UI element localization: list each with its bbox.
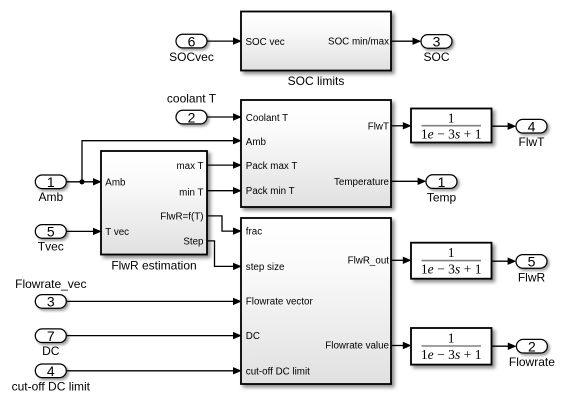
outport 1 Temp bbox=[426, 174, 457, 205]
svg-text:Amb: Amb bbox=[246, 137, 267, 148]
wire SOCvec to SOC limits bbox=[207, 37, 242, 44]
svg-text:FlwR estimation: FlwR estimation bbox=[111, 259, 196, 273]
svg-text:FlwT: FlwT bbox=[519, 135, 546, 149]
svg-text:Flowrate_vec: Flowrate_vec bbox=[15, 277, 86, 291]
inport 1 Amb bbox=[35, 174, 66, 204]
outport 2 Flowrate bbox=[509, 338, 555, 368]
inport 4 cut-off DC limit bbox=[12, 363, 91, 394]
svg-text:SOC limits: SOC limits bbox=[288, 74, 345, 88]
wire transfer fn 1 to FlwT outport bbox=[492, 123, 516, 130]
svg-text:SOC: SOC bbox=[423, 50, 449, 64]
svg-text:DC: DC bbox=[42, 344, 60, 358]
wire Temperature to Temp outport bbox=[392, 178, 427, 185]
svg-text:Temperature: Temperature bbox=[334, 177, 390, 188]
wire SOC limits to SOC bbox=[392, 38, 422, 45]
svg-text:Pack max T: Pack max T bbox=[246, 161, 298, 172]
svg-text:frac: frac bbox=[246, 227, 262, 238]
junction on Amb wire bbox=[79, 179, 84, 184]
inport 6 SOCvec bbox=[169, 33, 214, 64]
outport 4 FlwT bbox=[516, 118, 547, 148]
svg-text:Temp: Temp bbox=[427, 191, 457, 205]
inport 5 Tvec bbox=[35, 224, 66, 254]
svg-text:2: 2 bbox=[188, 109, 196, 125]
svg-text:Coolant T: Coolant T bbox=[246, 113, 288, 124]
svg-text:2: 2 bbox=[528, 338, 536, 354]
transfer function block 1/(1e-3s+1) for Flowrate bbox=[411, 328, 492, 365]
wire Step to step size bbox=[208, 241, 242, 270]
inport 7 DC bbox=[35, 328, 66, 358]
svg-text:5: 5 bbox=[47, 224, 55, 240]
svg-text:1: 1 bbox=[448, 245, 455, 260]
wire min T to Pack min T bbox=[208, 187, 242, 194]
subsystem FlwR estimation bbox=[101, 151, 207, 273]
inport 3 Flowrate_vec bbox=[15, 277, 86, 309]
svg-text:3: 3 bbox=[47, 294, 55, 310]
svg-text:Tvec: Tvec bbox=[38, 239, 64, 253]
svg-text:Amb: Amb bbox=[105, 178, 126, 189]
svg-text:FlwT: FlwT bbox=[368, 121, 389, 132]
svg-text:1e − 3s + 1: 1e − 3s + 1 bbox=[421, 347, 482, 362]
svg-text:4: 4 bbox=[528, 118, 536, 134]
svg-text:DC: DC bbox=[246, 331, 260, 342]
outport 3 SOC bbox=[421, 34, 452, 64]
wire Amb inport to FlwR estimation bbox=[67, 178, 102, 185]
svg-text:1: 1 bbox=[448, 331, 455, 346]
svg-text:Flowrate value: Flowrate value bbox=[325, 341, 389, 352]
svg-text:Pack min T: Pack min T bbox=[246, 186, 295, 197]
wire DC inport to DC input bbox=[67, 332, 242, 339]
svg-text:3: 3 bbox=[433, 34, 441, 50]
svg-text:cut-off DC limit: cut-off DC limit bbox=[12, 380, 91, 394]
svg-text:1: 1 bbox=[438, 174, 446, 190]
svg-text:coolant T: coolant T bbox=[167, 92, 217, 106]
inport 2 coolant T bbox=[167, 92, 217, 126]
svg-text:1: 1 bbox=[448, 110, 455, 125]
subsystem SOC limits bbox=[241, 12, 391, 88]
wire max T to Pack max T bbox=[208, 161, 242, 168]
svg-text:5: 5 bbox=[528, 254, 536, 270]
svg-text:1e − 3s + 1: 1e − 3s + 1 bbox=[421, 127, 482, 142]
wire transfer fn 3 to Flowrate outport bbox=[492, 343, 517, 350]
svg-text:Flowrate: Flowrate bbox=[509, 355, 555, 369]
svg-text:Flowrate vector: Flowrate vector bbox=[246, 297, 314, 308]
wire Tvec to T vec input bbox=[67, 228, 102, 235]
wire FlwR=f(T) to frac bbox=[208, 216, 242, 235]
wire cut-off DC limit inport to cut-off DC limit input bbox=[67, 367, 242, 374]
wire FlwR_out to transfer fn 2 bbox=[392, 257, 412, 264]
svg-text:min T: min T bbox=[179, 188, 203, 199]
svg-text:max T: max T bbox=[176, 161, 203, 172]
svg-text:FlwR_out: FlwR_out bbox=[348, 255, 390, 266]
svg-text:1: 1 bbox=[47, 174, 55, 190]
outport 5 FlwR bbox=[516, 254, 547, 285]
transfer function block 1/(1e-3s+1) for FlwT bbox=[411, 109, 492, 143]
svg-text:cut-off DC limit: cut-off DC limit bbox=[246, 367, 310, 378]
svg-text:step size: step size bbox=[246, 262, 285, 273]
subsystem thermal model (Coolant T/Amb/Pack max T/Pack min T -> FlwT/Temperature) bbox=[241, 100, 391, 207]
transfer function block 1/(1e-3s+1) for FlwR bbox=[411, 243, 492, 279]
wire transfer fn 2 to FlwR outport bbox=[492, 258, 516, 265]
svg-text:SOC vec: SOC vec bbox=[246, 37, 285, 48]
svg-text:7: 7 bbox=[47, 328, 55, 344]
svg-text:1e − 3s + 1: 1e − 3s + 1 bbox=[421, 262, 482, 277]
wire Amb branch to thermal model Amb input bbox=[82, 137, 242, 182]
wire FlwT to transfer fn 1 bbox=[392, 122, 412, 129]
svg-text:Step: Step bbox=[183, 237, 204, 248]
wire coolant T to thermal model bbox=[207, 113, 242, 120]
svg-text:6: 6 bbox=[188, 33, 196, 49]
svg-text:4: 4 bbox=[47, 363, 55, 379]
svg-text:T vec: T vec bbox=[105, 227, 129, 238]
wire Flowrate_vec to Flowrate vector bbox=[67, 298, 242, 305]
svg-text:FlwR=f(T): FlwR=f(T) bbox=[160, 212, 203, 223]
svg-text:FlwR: FlwR bbox=[518, 271, 546, 285]
wire Flowrate value to transfer fn 3 bbox=[392, 342, 412, 349]
svg-text:SOC min/max: SOC min/max bbox=[328, 37, 389, 48]
svg-text:SOCvec: SOCvec bbox=[169, 50, 214, 64]
subsystem flowrate model (frac/step size/Flowrate vector/DC/cut-off DC limit -> FlwR_out/Flowrate value) bbox=[241, 218, 391, 384]
svg-text:Amb: Amb bbox=[38, 190, 63, 204]
